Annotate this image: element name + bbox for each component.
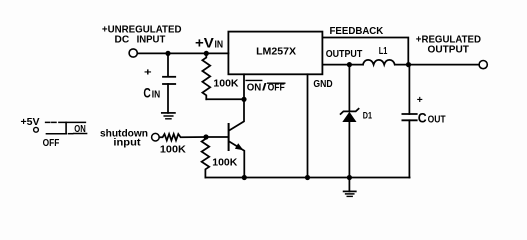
wire rail to ground xyxy=(348,178,350,192)
svg-text:100K: 100K xyxy=(213,79,239,90)
svg-text:L1: L1 xyxy=(379,45,388,57)
svg-text:+: + xyxy=(417,94,423,106)
ON underline xyxy=(74,133,87,135)
ON/OFF overline (OFF) xyxy=(268,82,285,84)
wire GND pin drop xyxy=(307,74,309,177)
svg-text:+V: +V xyxy=(195,36,214,51)
input terminal xyxy=(129,49,137,57)
capacitor CIN xyxy=(163,76,175,78)
wire D1 branch xyxy=(348,65,350,112)
switch bottom solid line xyxy=(46,133,66,135)
node VIN junction xyxy=(204,51,209,56)
svg-text:INPUT: INPUT xyxy=(137,33,166,45)
wire CIN drop xyxy=(167,53,169,76)
ON/OFF overline (ON) xyxy=(246,79,262,81)
node D1-rail xyxy=(347,175,352,180)
switch top solid line xyxy=(59,121,86,123)
wire emitter xyxy=(229,142,244,178)
transistor Q1 bar xyxy=(228,124,230,150)
inductor L1 xyxy=(363,60,395,65)
svg-text:+5V: +5V xyxy=(21,117,40,128)
diode D1 zener bar xyxy=(341,109,359,114)
svg-text:D1: D1 xyxy=(363,111,373,122)
svg-text:OFF: OFF xyxy=(268,83,285,94)
svg-text:OFF: OFF xyxy=(43,138,60,149)
wire input to box xyxy=(137,52,228,54)
svg-text:OUTPUT: OUTPUT xyxy=(326,48,363,60)
svg-text:DC: DC xyxy=(115,33,130,45)
wire ON/OFF pin xyxy=(243,74,245,99)
node base xyxy=(203,134,208,139)
ground (CIN) xyxy=(162,112,175,114)
wire output from box xyxy=(322,64,363,66)
node gnd-rail xyxy=(305,175,310,180)
svg-text:100K: 100K xyxy=(212,158,238,169)
svg-text:OUTPUT: OUTPUT xyxy=(428,44,470,56)
capacitor COUT xyxy=(402,113,416,115)
wire feedback xyxy=(322,38,408,65)
svg-text:input: input xyxy=(113,137,141,149)
svg-text:ON: ON xyxy=(74,124,86,135)
svg-text:100K: 100K xyxy=(160,145,187,156)
resistor R3 100K (series, horizontal) xyxy=(159,134,206,140)
resistor R1 100K (upper) xyxy=(202,53,210,99)
transistor emitter arrow xyxy=(235,143,244,150)
switch lever bar xyxy=(65,122,67,133)
svg-text:LM257X: LM257X xyxy=(256,46,296,58)
output terminal xyxy=(479,61,487,69)
svg-text:/: / xyxy=(262,83,267,94)
wire inductor to output terminal xyxy=(395,64,479,66)
+5V pole circle xyxy=(34,127,39,132)
node emitter-rail xyxy=(242,175,247,180)
resistor R2 100K (lower) xyxy=(202,137,210,178)
node ON/OFF xyxy=(241,97,246,102)
svg-text:C: C xyxy=(418,111,427,126)
node output-D1 xyxy=(347,62,352,67)
node CIN junction xyxy=(165,51,170,56)
wire collector xyxy=(229,99,244,130)
svg-text:OUT: OUT xyxy=(428,115,446,126)
svg-text:ON: ON xyxy=(247,83,262,94)
svg-text:+: + xyxy=(144,66,152,78)
svg-text:IN: IN xyxy=(152,90,160,101)
ground (bottom) xyxy=(344,190,356,192)
shutdown input terminal xyxy=(152,133,160,141)
svg-text:C: C xyxy=(143,86,151,101)
svg-text:IN: IN xyxy=(215,40,224,51)
svg-text:FEEDBACK: FEEDBACK xyxy=(330,25,384,37)
svg-text:GND: GND xyxy=(313,78,333,90)
op-amp box LM257X xyxy=(228,32,322,75)
wire R1 bottom to ON/OFF node xyxy=(206,98,244,100)
wire COUT branch xyxy=(408,65,410,114)
wire CIN to ground xyxy=(167,84,169,113)
node output-feedback-COUT xyxy=(406,62,411,67)
switch: +5V dashed top xyxy=(46,121,58,123)
switch bottom dash xyxy=(69,133,73,135)
wire base xyxy=(206,136,228,138)
diode D1 triangle xyxy=(342,112,356,122)
wire bottom rail xyxy=(205,177,409,179)
